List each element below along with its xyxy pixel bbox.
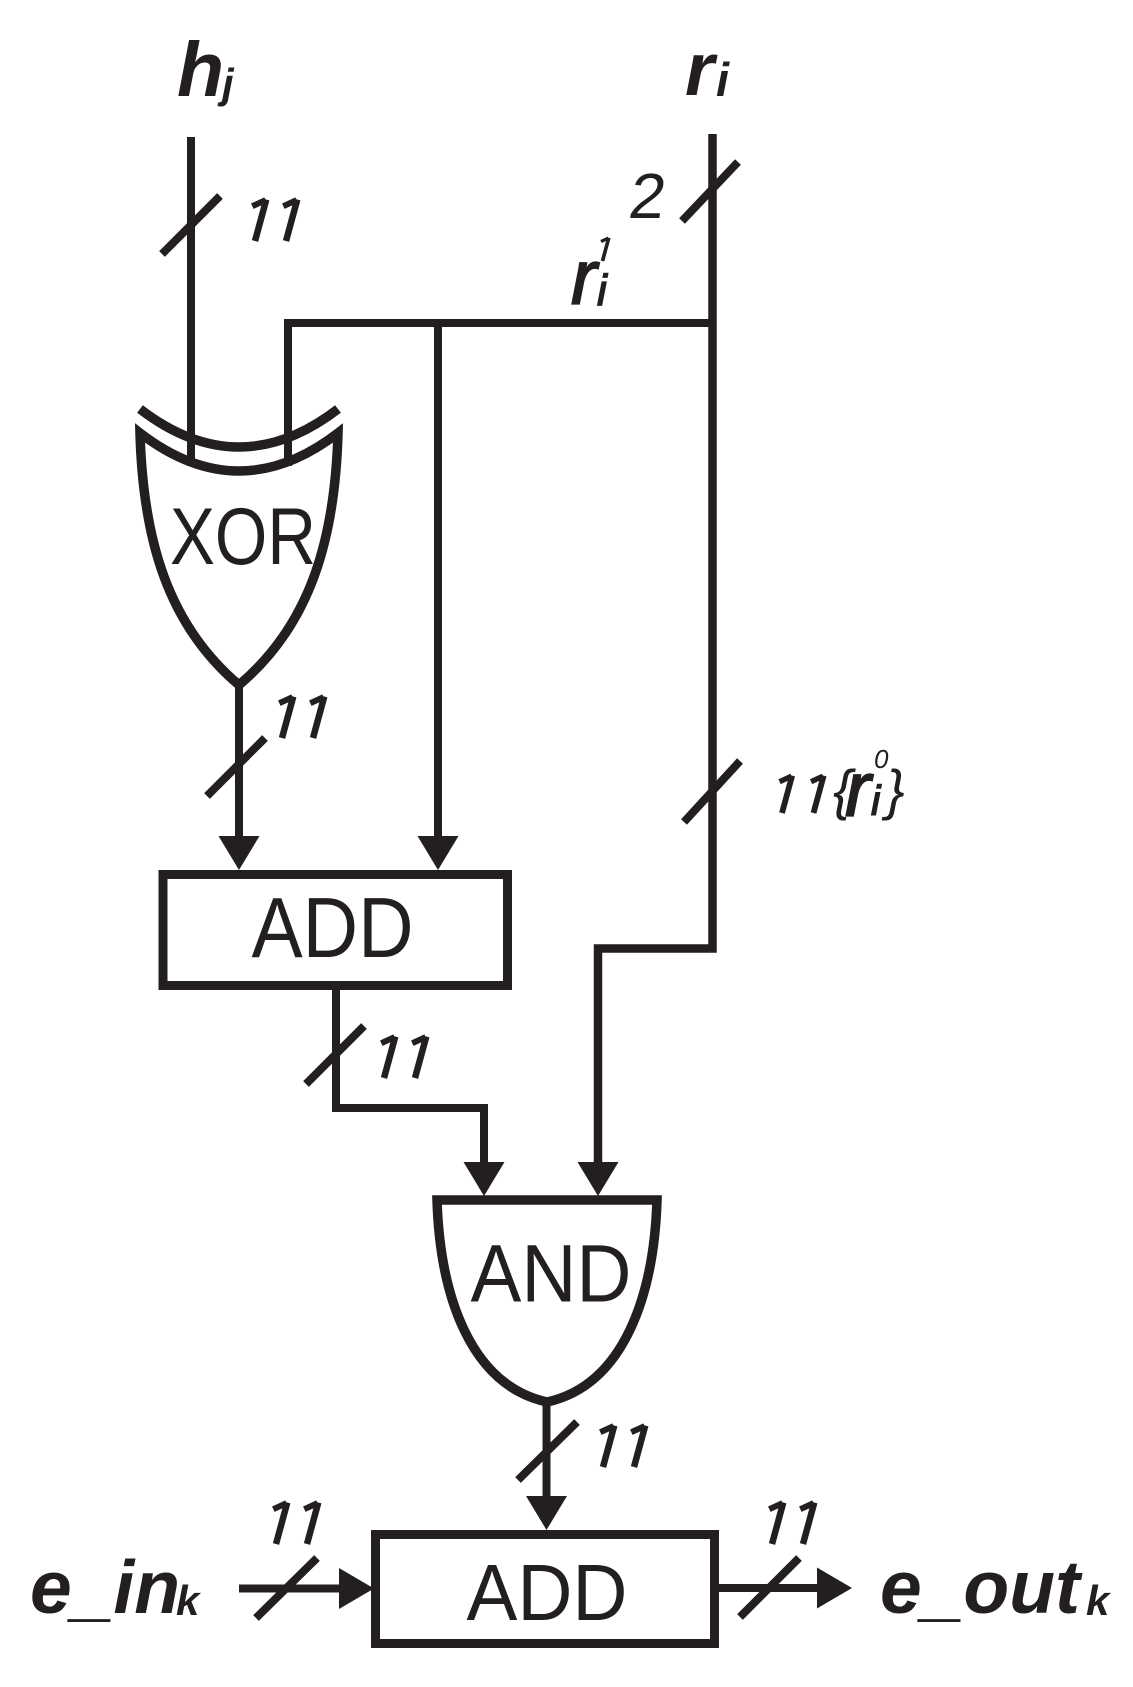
bus width label 11 (XOR out) [279, 697, 324, 739]
wire e_in into ADD2 [239, 1585, 341, 1593]
op ADD1 box [163, 875, 508, 986]
svg-text:i: i [597, 266, 608, 315]
bus slash on AND output [518, 1422, 577, 1480]
svg-text:i: i [716, 53, 730, 106]
wire h_j vertical into XOR [187, 137, 195, 466]
svg-text:AND: AND [471, 1229, 632, 1320]
op XOR gate [140, 409, 338, 685]
bus slash on h_j wire [162, 196, 220, 254]
svg-text:ADD: ADD [467, 1548, 628, 1637]
wire r_i^1 horizontal branch [288, 323, 716, 466]
svg-text:e_out: e_out [880, 1545, 1083, 1629]
bus slash on ADD1 output [306, 1026, 364, 1084]
svg-text:ADD: ADD [252, 881, 414, 976]
wire r_i vertical then jog left into AND [598, 134, 713, 1166]
arrowhead e_in into ADD2 [339, 1568, 374, 1609]
bus width label 11 (AND out) [600, 1426, 645, 1468]
bus slash on r_i wire (2) [682, 162, 738, 221]
svg-text:k: k [176, 1577, 202, 1624]
svg-text:XOR: XOR [170, 492, 316, 582]
arrowhead XOR output into ADD1 [219, 836, 260, 870]
wire branch down to ADD1 [434, 323, 442, 838]
svg-text:i: i [871, 777, 882, 824]
bus width label 11 (ADD1 out) [381, 1037, 426, 1079]
svg-text:r: r [571, 235, 600, 321]
svg-text:r: r [685, 27, 718, 111]
bus width label 11{r_i^0} [780, 744, 905, 833]
svg-text:2: 2 [625, 160, 671, 232]
node e_out_k label [880, 1545, 1112, 1629]
bus slash on e_in wire [256, 1558, 317, 1618]
svg-text:e_in: e_in [30, 1545, 180, 1629]
wire XOR output into ADD1 [235, 683, 243, 838]
svg-text:k: k [1086, 1577, 1112, 1624]
svg-text:r: r [845, 747, 874, 833]
node e_in_k label [30, 1545, 202, 1629]
wire ADD1 output to AND [336, 990, 484, 1166]
svg-text:h: h [177, 27, 224, 113]
bus slash on r_i lower segment [684, 761, 740, 822]
arrowhead AND output into ADD2 [526, 1496, 567, 1530]
node h_j input label [177, 27, 235, 113]
wire AND output into ADD2 [543, 1400, 551, 1500]
node r_i^1 label [571, 235, 609, 321]
op AND gate [437, 1200, 657, 1402]
bus width label 11 (e_in) [273, 1503, 318, 1545]
arrowhead branch into ADD1 [418, 836, 459, 870]
op ADD2 box [376, 1535, 715, 1644]
arrowhead ADD1 output into AND [464, 1162, 505, 1196]
arrowhead r_i into AND [578, 1162, 619, 1196]
bus width label 11 (h_j) [252, 200, 297, 242]
arrowhead e_out [817, 1568, 852, 1609]
bus width label 11 (e_out) [769, 1503, 814, 1545]
node r_i input label [685, 27, 730, 111]
bus slash on e_out wire [740, 1558, 799, 1617]
bus slash on XOR output [207, 738, 265, 796]
wire e_out from ADD2 [711, 1584, 819, 1592]
